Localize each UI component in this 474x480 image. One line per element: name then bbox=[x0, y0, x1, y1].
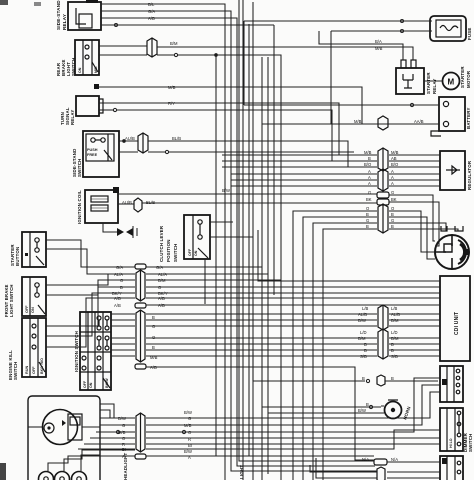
svg-text:OFF: OFF bbox=[25, 305, 29, 313]
svg-text:B: B bbox=[366, 402, 369, 407]
svg-text:M/B: M/B bbox=[94, 66, 98, 73]
svg-text:G: G bbox=[391, 190, 394, 195]
svg-text:A: A bbox=[368, 175, 371, 180]
svg-text:AB: AB bbox=[391, 156, 397, 161]
svg-text:B: B bbox=[152, 315, 155, 320]
svg-text:A/B: A/B bbox=[114, 296, 121, 301]
svg-text:A/B: A/B bbox=[114, 303, 121, 308]
svg-text:B/W: B/W bbox=[358, 408, 366, 413]
svg-text:B/W: B/W bbox=[184, 410, 192, 415]
svg-text:A: A bbox=[122, 454, 125, 459]
svg-text:G/A: G/A bbox=[156, 265, 163, 270]
svg-text:L/B: L/B bbox=[391, 306, 397, 311]
svg-text:B/W: B/W bbox=[222, 188, 230, 193]
svg-text:CDI UNIT: CDI UNIT bbox=[454, 312, 460, 335]
svg-text:B: B bbox=[391, 348, 394, 353]
svg-text:N/A: N/A bbox=[391, 457, 398, 462]
svg-text:L/B: L/B bbox=[362, 306, 368, 311]
svg-text:G: G bbox=[188, 416, 191, 421]
svg-text:G: G bbox=[366, 218, 369, 223]
svg-text:IGNITION COIL: IGNITION COIL bbox=[77, 190, 82, 224]
svg-text:AU/B: AU/B bbox=[125, 136, 135, 141]
svg-text:LIGHT SWITCH: LIGHT SWITCH bbox=[9, 284, 14, 317]
svg-text:S/B: S/B bbox=[391, 354, 398, 359]
svg-text:B/M: B/M bbox=[170, 41, 178, 46]
svg-text:B: B bbox=[152, 345, 155, 350]
svg-text:SWITCH: SWITCH bbox=[71, 57, 76, 76]
svg-text:OFF: OFF bbox=[32, 366, 36, 374]
svg-text:BK: BK bbox=[391, 197, 397, 202]
svg-text:B: B bbox=[366, 224, 369, 229]
svg-text:B/A: B/A bbox=[375, 39, 382, 44]
svg-text:B/W: B/W bbox=[184, 449, 192, 454]
svg-text:M/B: M/B bbox=[364, 150, 372, 155]
svg-text:G/A: G/A bbox=[116, 265, 123, 270]
svg-text:B/W: B/W bbox=[118, 416, 126, 421]
svg-text:OFF: OFF bbox=[83, 380, 87, 388]
svg-text:A: A bbox=[188, 455, 191, 460]
svg-text:CLUTCH LEVER: CLUTCH LEVER bbox=[159, 225, 164, 262]
svg-text:B/M: B/M bbox=[158, 278, 166, 283]
svg-text:BK: BK bbox=[366, 197, 372, 202]
svg-text:BATTERY: BATTERY bbox=[466, 107, 471, 129]
svg-text:B/L: B/L bbox=[148, 2, 155, 7]
svg-text:OFF: OFF bbox=[188, 248, 192, 256]
svg-text:M/B: M/B bbox=[184, 423, 192, 428]
svg-text:B/W: B/W bbox=[358, 318, 366, 323]
svg-text:FUSE: FUSE bbox=[467, 27, 472, 40]
svg-text:SWITCH: SWITCH bbox=[468, 433, 473, 452]
svg-text:G/A: G/A bbox=[148, 9, 155, 14]
svg-text:B: B bbox=[362, 376, 365, 381]
svg-text:A/B: A/B bbox=[150, 365, 157, 370]
svg-text:RELAY: RELAY bbox=[62, 14, 67, 30]
svg-text:A: A bbox=[391, 175, 394, 180]
svg-text:SWITCH: SWITCH bbox=[77, 158, 82, 177]
svg-text:B/M: B/M bbox=[391, 318, 399, 323]
svg-text:B: B bbox=[391, 224, 394, 229]
svg-text:A: A bbox=[391, 181, 394, 186]
svg-text:RUN: RUN bbox=[25, 366, 29, 374]
svg-text:B: B bbox=[368, 156, 371, 161]
svg-text:IGNITION SWITCH: IGNITION SWITCH bbox=[74, 331, 79, 372]
svg-text:G: G bbox=[368, 190, 371, 195]
svg-text:POSITION: POSITION bbox=[166, 239, 171, 262]
svg-text:HI LO: HI LO bbox=[449, 438, 453, 448]
svg-text:G: G bbox=[122, 423, 125, 428]
svg-text:BL/B: BL/B bbox=[172, 136, 181, 141]
svg-text:N/A: N/A bbox=[362, 457, 369, 462]
svg-text:B/M: B/M bbox=[391, 336, 399, 341]
svg-text:B/O: B/O bbox=[364, 162, 372, 167]
svg-text:ON: ON bbox=[194, 250, 198, 256]
svg-text:D: D bbox=[391, 342, 394, 347]
svg-text:A/D: A/D bbox=[148, 16, 155, 21]
svg-text:B: B bbox=[366, 212, 369, 217]
svg-text:B: B bbox=[364, 348, 367, 353]
svg-text:B/O: B/O bbox=[391, 162, 399, 167]
svg-text:M/B: M/B bbox=[118, 430, 126, 435]
svg-text:B/M: B/M bbox=[358, 336, 366, 341]
svg-text:M/B: M/B bbox=[375, 46, 383, 51]
svg-text:M/B: M/B bbox=[150, 355, 158, 360]
svg-text:FREE: FREE bbox=[87, 153, 98, 157]
svg-text:ON: ON bbox=[89, 382, 93, 388]
svg-text:STARTER: STARTER bbox=[460, 66, 465, 88]
svg-text:R: R bbox=[188, 437, 191, 442]
svg-text:RELAY: RELAY bbox=[70, 110, 75, 125]
svg-text:A/B: A/B bbox=[158, 303, 165, 308]
svg-text:S/B: S/B bbox=[360, 354, 367, 359]
svg-text:M/B: M/B bbox=[354, 119, 362, 124]
svg-text:SWITCH: SWITCH bbox=[173, 243, 178, 262]
svg-text:AU/B: AU/B bbox=[122, 200, 132, 205]
svg-text:A: A bbox=[368, 181, 371, 186]
svg-text:BL/B: BL/B bbox=[146, 200, 155, 205]
svg-text:M: M bbox=[448, 78, 455, 87]
svg-text:L/D: L/D bbox=[391, 330, 398, 335]
svg-text:BUTTON: BUTTON bbox=[15, 247, 20, 266]
svg-text:SIDE-STAND: SIDE-STAND bbox=[56, 0, 61, 30]
svg-text:STARTER: STARTER bbox=[426, 72, 431, 94]
svg-text:R/Y: R/Y bbox=[168, 101, 175, 106]
svg-text:MOTOR: MOTOR bbox=[466, 70, 471, 88]
svg-text:B: B bbox=[391, 212, 394, 217]
svg-text:L/D: L/D bbox=[360, 330, 367, 335]
svg-text:AL/B: AL/B bbox=[391, 312, 400, 317]
svg-text:BI: BI bbox=[188, 443, 192, 448]
svg-text:BI: BI bbox=[122, 447, 126, 452]
svg-text:PUSH: PUSH bbox=[87, 148, 98, 152]
svg-text:B: B bbox=[120, 285, 123, 290]
svg-text:AL/B: AL/B bbox=[358, 312, 367, 317]
svg-text:D: D bbox=[364, 342, 367, 347]
svg-text:ON: ON bbox=[78, 67, 82, 73]
svg-text:ON: ON bbox=[31, 307, 35, 313]
svg-text:REGULATOR: REGULATOR bbox=[467, 160, 472, 190]
svg-text:SWITCH: SWITCH bbox=[13, 361, 18, 380]
svg-text:G: G bbox=[391, 218, 394, 223]
svg-text:AA/B: AA/B bbox=[414, 119, 424, 124]
svg-text:B: B bbox=[391, 376, 394, 381]
svg-text:AL/A: AL/A bbox=[114, 272, 123, 277]
svg-text:A: A bbox=[368, 169, 371, 174]
svg-text:AL/A: AL/A bbox=[158, 272, 167, 277]
svg-text:M/B: M/B bbox=[168, 85, 176, 90]
svg-text:A/B: A/B bbox=[158, 296, 165, 301]
svg-text:A: A bbox=[391, 169, 394, 174]
svg-text:M/B: M/B bbox=[391, 150, 399, 155]
